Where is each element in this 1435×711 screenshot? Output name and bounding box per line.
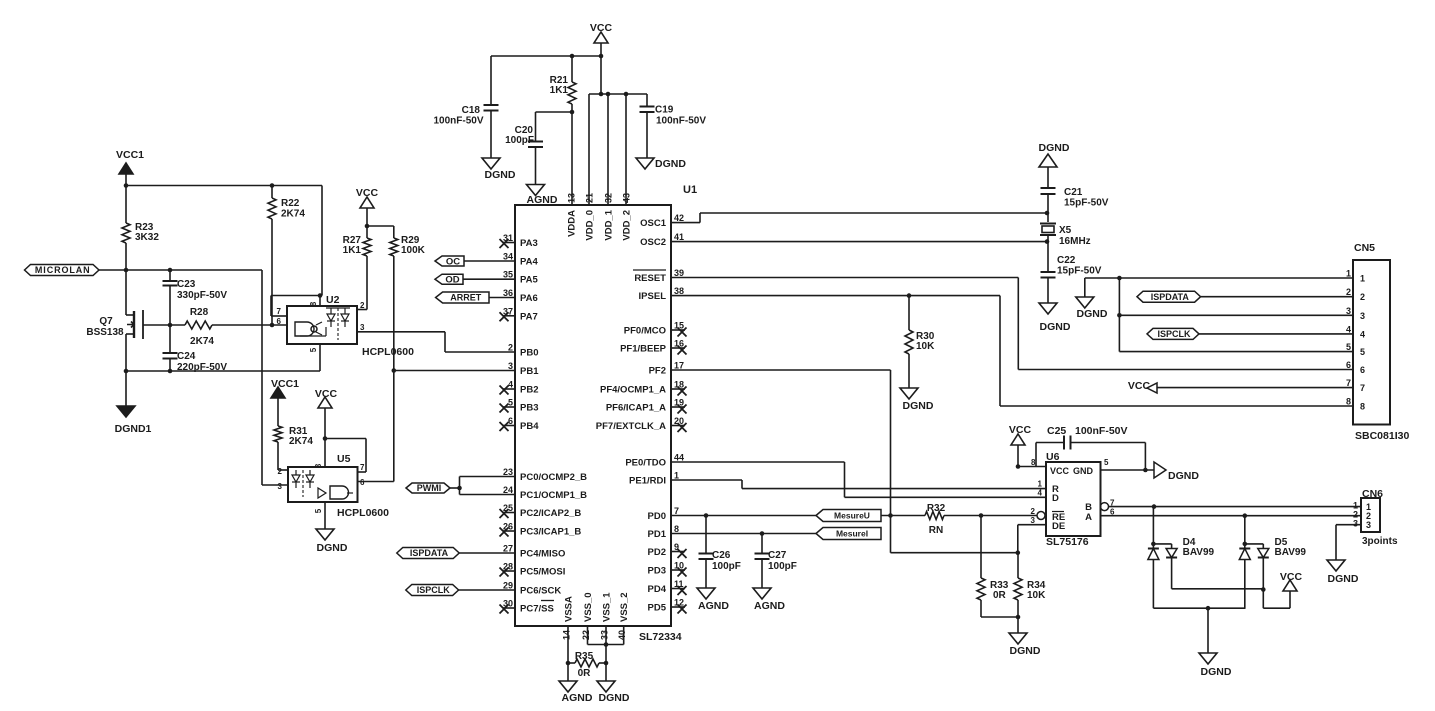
svg-text:DGND: DGND <box>1168 470 1199 482</box>
svg-text:8: 8 <box>1360 402 1365 412</box>
svg-text:5: 5 <box>1360 347 1365 357</box>
svg-text:X5: X5 <box>1059 225 1072 236</box>
svg-text:28: 28 <box>503 562 513 572</box>
svg-text:VDD_0: VDD_0 <box>585 210 596 241</box>
svg-text:PB1: PB1 <box>520 366 539 377</box>
svg-text:PC0/OCMP2_B: PC0/OCMP2_B <box>520 472 587 483</box>
svg-text:C26: C26 <box>712 550 731 561</box>
svg-text:22: 22 <box>581 630 591 640</box>
svg-text:DGND: DGND <box>655 158 686 170</box>
svg-text:1K1: 1K1 <box>550 85 569 96</box>
svg-text:1: 1 <box>1038 480 1043 489</box>
svg-text:DGND: DGND <box>1039 142 1070 154</box>
svg-text:CN5: CN5 <box>1354 242 1375 254</box>
svg-text:4: 4 <box>1038 489 1043 498</box>
svg-text:15pF-50V: 15pF-50V <box>1057 266 1102 277</box>
svg-text:IPSEL: IPSEL <box>639 291 667 302</box>
svg-text:PC1/OCMP1_B: PC1/OCMP1_B <box>520 490 587 501</box>
svg-text:3: 3 <box>360 323 365 332</box>
svg-text:7: 7 <box>360 463 365 472</box>
svg-text:PF2: PF2 <box>649 366 666 377</box>
svg-text:SBC081I30: SBC081I30 <box>1355 430 1409 442</box>
svg-text:3: 3 <box>1360 311 1365 321</box>
svg-text:100pF: 100pF <box>768 561 797 572</box>
svg-text:4: 4 <box>1346 324 1351 334</box>
svg-text:40: 40 <box>617 630 627 640</box>
svg-text:37: 37 <box>503 306 513 316</box>
svg-text:GND: GND <box>1073 466 1094 476</box>
svg-text:7: 7 <box>1360 383 1365 393</box>
svg-text:MesureI: MesureI <box>836 529 868 539</box>
svg-text:10K: 10K <box>1027 590 1046 601</box>
svg-text:OSC1: OSC1 <box>640 218 667 229</box>
svg-text:AGND: AGND <box>562 692 593 704</box>
svg-text:DGND: DGND <box>317 542 348 554</box>
svg-text:PF6/ICAP1_A: PF6/ICAP1_A <box>606 403 666 414</box>
svg-text:24: 24 <box>503 485 513 495</box>
svg-text:6: 6 <box>1360 365 1365 375</box>
svg-text:1: 1 <box>1346 269 1351 279</box>
svg-text:23: 23 <box>503 467 513 477</box>
svg-text:41: 41 <box>674 232 684 242</box>
svg-text:DGND: DGND <box>1010 645 1041 657</box>
svg-text:OC: OC <box>446 256 460 267</box>
svg-text:PE0/TDO: PE0/TDO <box>625 458 666 469</box>
svg-text:2: 2 <box>1346 287 1351 297</box>
svg-text:PF4/OCMP1_A: PF4/OCMP1_A <box>600 385 666 396</box>
svg-text:D: D <box>1052 493 1059 504</box>
svg-text:C19: C19 <box>655 105 674 116</box>
svg-text:ISPDATA: ISPDATA <box>1151 292 1190 302</box>
svg-text:32: 32 <box>604 193 614 203</box>
svg-text:VDD_2: VDD_2 <box>622 210 633 241</box>
svg-text:RN: RN <box>929 525 943 536</box>
svg-text:100pF: 100pF <box>505 135 534 146</box>
svg-text:4: 4 <box>508 380 513 390</box>
svg-text:34: 34 <box>503 252 513 262</box>
svg-text:PF1/BEEP: PF1/BEEP <box>620 344 667 355</box>
svg-text:100nF-50V: 100nF-50V <box>656 116 706 127</box>
svg-text:5: 5 <box>314 508 323 513</box>
svg-text:Q7: Q7 <box>99 316 113 327</box>
svg-text:3points: 3points <box>1362 536 1398 547</box>
svg-text:A: A <box>1085 512 1092 523</box>
svg-text:DGND: DGND <box>1328 573 1359 585</box>
svg-text:R22: R22 <box>281 198 300 209</box>
svg-text:PC6/SCK: PC6/SCK <box>520 586 561 597</box>
svg-text:7: 7 <box>277 307 282 316</box>
svg-text:44: 44 <box>674 453 684 463</box>
svg-text:PWMI: PWMI <box>417 483 442 493</box>
svg-text:HCPL0600: HCPL0600 <box>362 346 414 358</box>
svg-text:ISPCLK: ISPCLK <box>417 585 451 595</box>
svg-text:OSC2: OSC2 <box>640 237 666 248</box>
svg-text:5: 5 <box>1346 342 1351 352</box>
svg-text:VCC1: VCC1 <box>271 378 299 390</box>
svg-text:PA3: PA3 <box>520 238 538 249</box>
svg-text:PB2: PB2 <box>520 385 538 396</box>
svg-text:DGND: DGND <box>1040 321 1071 333</box>
svg-text:DGND1: DGND1 <box>115 423 152 435</box>
svg-text:2: 2 <box>360 301 365 310</box>
svg-text:2: 2 <box>278 467 283 476</box>
svg-text:27: 27 <box>503 544 513 554</box>
svg-text:ISPDATA: ISPDATA <box>410 548 449 558</box>
svg-text:21: 21 <box>585 193 595 203</box>
svg-text:42: 42 <box>674 213 684 223</box>
svg-text:C24: C24 <box>177 351 196 362</box>
svg-text:3: 3 <box>278 482 283 491</box>
svg-text:ARRET: ARRET <box>450 293 482 303</box>
svg-text:PD2: PD2 <box>648 547 666 558</box>
svg-text:C27: C27 <box>768 550 787 561</box>
svg-text:38: 38 <box>674 286 684 296</box>
svg-text:R28: R28 <box>190 307 209 318</box>
svg-text:31: 31 <box>503 233 513 243</box>
svg-text:33: 33 <box>600 630 610 640</box>
svg-text:1K1: 1K1 <box>343 245 362 256</box>
svg-text:4: 4 <box>1360 329 1365 339</box>
svg-text:HCPL0600: HCPL0600 <box>337 507 389 519</box>
svg-text:CN6: CN6 <box>1362 488 1383 500</box>
svg-text:VDDA: VDDA <box>567 210 578 237</box>
svg-text:6: 6 <box>360 478 365 487</box>
svg-text:VCC: VCC <box>1050 466 1070 476</box>
svg-text:PA7: PA7 <box>520 311 538 322</box>
svg-text:PA5: PA5 <box>520 275 538 286</box>
svg-text:DGND: DGND <box>599 692 630 704</box>
svg-text:6: 6 <box>1346 360 1351 370</box>
svg-text:100nF-50V: 100nF-50V <box>1075 425 1128 437</box>
svg-text:PB3: PB3 <box>520 403 538 414</box>
svg-text:PB0: PB0 <box>520 348 538 359</box>
svg-text:PD5: PD5 <box>648 603 667 614</box>
svg-text:SL75176: SL75176 <box>1046 536 1089 548</box>
svg-text:PC4/MISO: PC4/MISO <box>520 549 565 560</box>
svg-text:6: 6 <box>277 317 282 326</box>
svg-text:U6: U6 <box>1046 451 1060 463</box>
svg-text:30: 30 <box>503 599 513 609</box>
svg-text:RESET: RESET <box>634 273 666 284</box>
svg-text:PB4: PB4 <box>520 421 539 432</box>
svg-text:VSS_1: VSS_1 <box>602 592 613 622</box>
svg-text:29: 29 <box>503 581 513 591</box>
svg-text:U1: U1 <box>683 184 697 196</box>
svg-text:VCC: VCC <box>1128 380 1151 392</box>
svg-text:U2: U2 <box>326 294 340 306</box>
svg-text:BSS138: BSS138 <box>86 327 124 338</box>
svg-text:2K74: 2K74 <box>190 336 214 347</box>
svg-text:5: 5 <box>1104 458 1109 467</box>
svg-text:330pF-50V: 330pF-50V <box>177 290 227 301</box>
svg-text:3: 3 <box>1031 516 1036 525</box>
svg-text:5: 5 <box>508 398 513 408</box>
svg-text:100pF: 100pF <box>712 561 741 572</box>
svg-text:43: 43 <box>622 193 632 203</box>
svg-text:PD0: PD0 <box>648 511 666 522</box>
svg-text:ISPCLK: ISPCLK <box>1157 329 1191 339</box>
svg-text:3K32: 3K32 <box>135 232 159 243</box>
svg-text:PA6: PA6 <box>520 293 538 304</box>
svg-text:100K: 100K <box>401 245 426 256</box>
svg-text:SL72334: SL72334 <box>639 631 682 643</box>
svg-text:PC3/ICAP1_B: PC3/ICAP1_B <box>520 527 581 538</box>
svg-text:2: 2 <box>1360 292 1365 302</box>
svg-text:14: 14 <box>562 630 572 640</box>
svg-text:PD1: PD1 <box>648 529 667 540</box>
svg-text:C23: C23 <box>177 279 196 290</box>
svg-text:PA4: PA4 <box>520 257 538 268</box>
svg-text:3: 3 <box>1346 306 1351 316</box>
svg-text:VDD_1: VDD_1 <box>604 209 615 240</box>
svg-text:0R: 0R <box>993 590 1007 601</box>
svg-text:C25: C25 <box>1047 425 1066 437</box>
svg-text:DGND: DGND <box>903 400 934 412</box>
svg-text:7: 7 <box>1346 378 1351 388</box>
svg-text:PF7/EXTCLK_A: PF7/EXTCLK_A <box>596 421 666 432</box>
svg-text:3: 3 <box>508 361 513 371</box>
svg-text:BAV99: BAV99 <box>1183 547 1215 558</box>
svg-text:3: 3 <box>1353 519 1358 529</box>
svg-text:C18: C18 <box>462 105 481 116</box>
svg-text:8: 8 <box>674 524 679 534</box>
svg-text:8: 8 <box>314 463 323 468</box>
svg-text:8: 8 <box>309 301 318 306</box>
svg-text:36: 36 <box>503 288 513 298</box>
svg-text:R35: R35 <box>575 651 594 662</box>
svg-text:DGND: DGND <box>485 169 516 181</box>
svg-text:BAV99: BAV99 <box>1275 547 1307 558</box>
svg-text:39: 39 <box>674 268 684 278</box>
svg-text:7: 7 <box>674 506 679 516</box>
svg-text:13: 13 <box>567 193 577 203</box>
svg-text:PC5/MOSI: PC5/MOSI <box>520 567 565 578</box>
svg-text:3: 3 <box>1366 520 1371 530</box>
svg-text:AGND: AGND <box>754 600 785 612</box>
svg-text:26: 26 <box>503 522 513 532</box>
svg-text:8: 8 <box>1031 458 1036 467</box>
svg-text:PD4: PD4 <box>648 584 667 595</box>
svg-text:MICROLAN: MICROLAN <box>35 265 91 275</box>
svg-text:6: 6 <box>508 416 513 426</box>
svg-text:VSS_0: VSS_0 <box>583 592 594 622</box>
svg-text:MesureU: MesureU <box>834 511 870 521</box>
svg-text:2: 2 <box>1031 507 1036 516</box>
svg-text:VSSA: VSSA <box>564 596 575 622</box>
svg-text:2K74: 2K74 <box>289 436 313 447</box>
svg-text:16MHz: 16MHz <box>1059 236 1091 247</box>
svg-text:2: 2 <box>508 343 513 353</box>
svg-text:PE1/RDI: PE1/RDI <box>629 476 666 487</box>
svg-text:17: 17 <box>674 361 684 371</box>
svg-text:PC7/SS: PC7/SS <box>520 604 554 615</box>
svg-text:35: 35 <box>503 270 513 280</box>
svg-text:DGND: DGND <box>1077 308 1108 320</box>
svg-text:AGND: AGND <box>698 600 729 612</box>
svg-text:2K74: 2K74 <box>281 209 305 220</box>
svg-text:U5: U5 <box>337 453 351 465</box>
svg-text:C21: C21 <box>1064 187 1083 198</box>
svg-text:15pF-50V: 15pF-50V <box>1064 198 1109 209</box>
svg-text:C22: C22 <box>1057 255 1076 266</box>
svg-text:1: 1 <box>1360 274 1365 284</box>
svg-text:VCC: VCC <box>1009 424 1032 436</box>
svg-text:PF0/MCO: PF0/MCO <box>624 326 666 337</box>
svg-text:PD3: PD3 <box>648 566 666 577</box>
svg-text:25: 25 <box>503 503 513 513</box>
svg-text:10K: 10K <box>916 341 935 352</box>
svg-text:0R: 0R <box>578 668 592 679</box>
svg-text:PC2/ICAP2_B: PC2/ICAP2_B <box>520 508 581 519</box>
svg-text:8: 8 <box>1346 397 1351 407</box>
svg-text:R32: R32 <box>927 503 946 514</box>
svg-text:DGND: DGND <box>1201 666 1232 678</box>
svg-text:5: 5 <box>309 347 318 352</box>
svg-text:VSS_2: VSS_2 <box>619 592 630 622</box>
svg-text:DE: DE <box>1052 521 1065 532</box>
svg-text:1: 1 <box>674 471 679 481</box>
svg-text:VCC1: VCC1 <box>116 149 144 161</box>
svg-text:OD: OD <box>445 275 459 286</box>
svg-text:100nF-50V: 100nF-50V <box>433 116 483 127</box>
